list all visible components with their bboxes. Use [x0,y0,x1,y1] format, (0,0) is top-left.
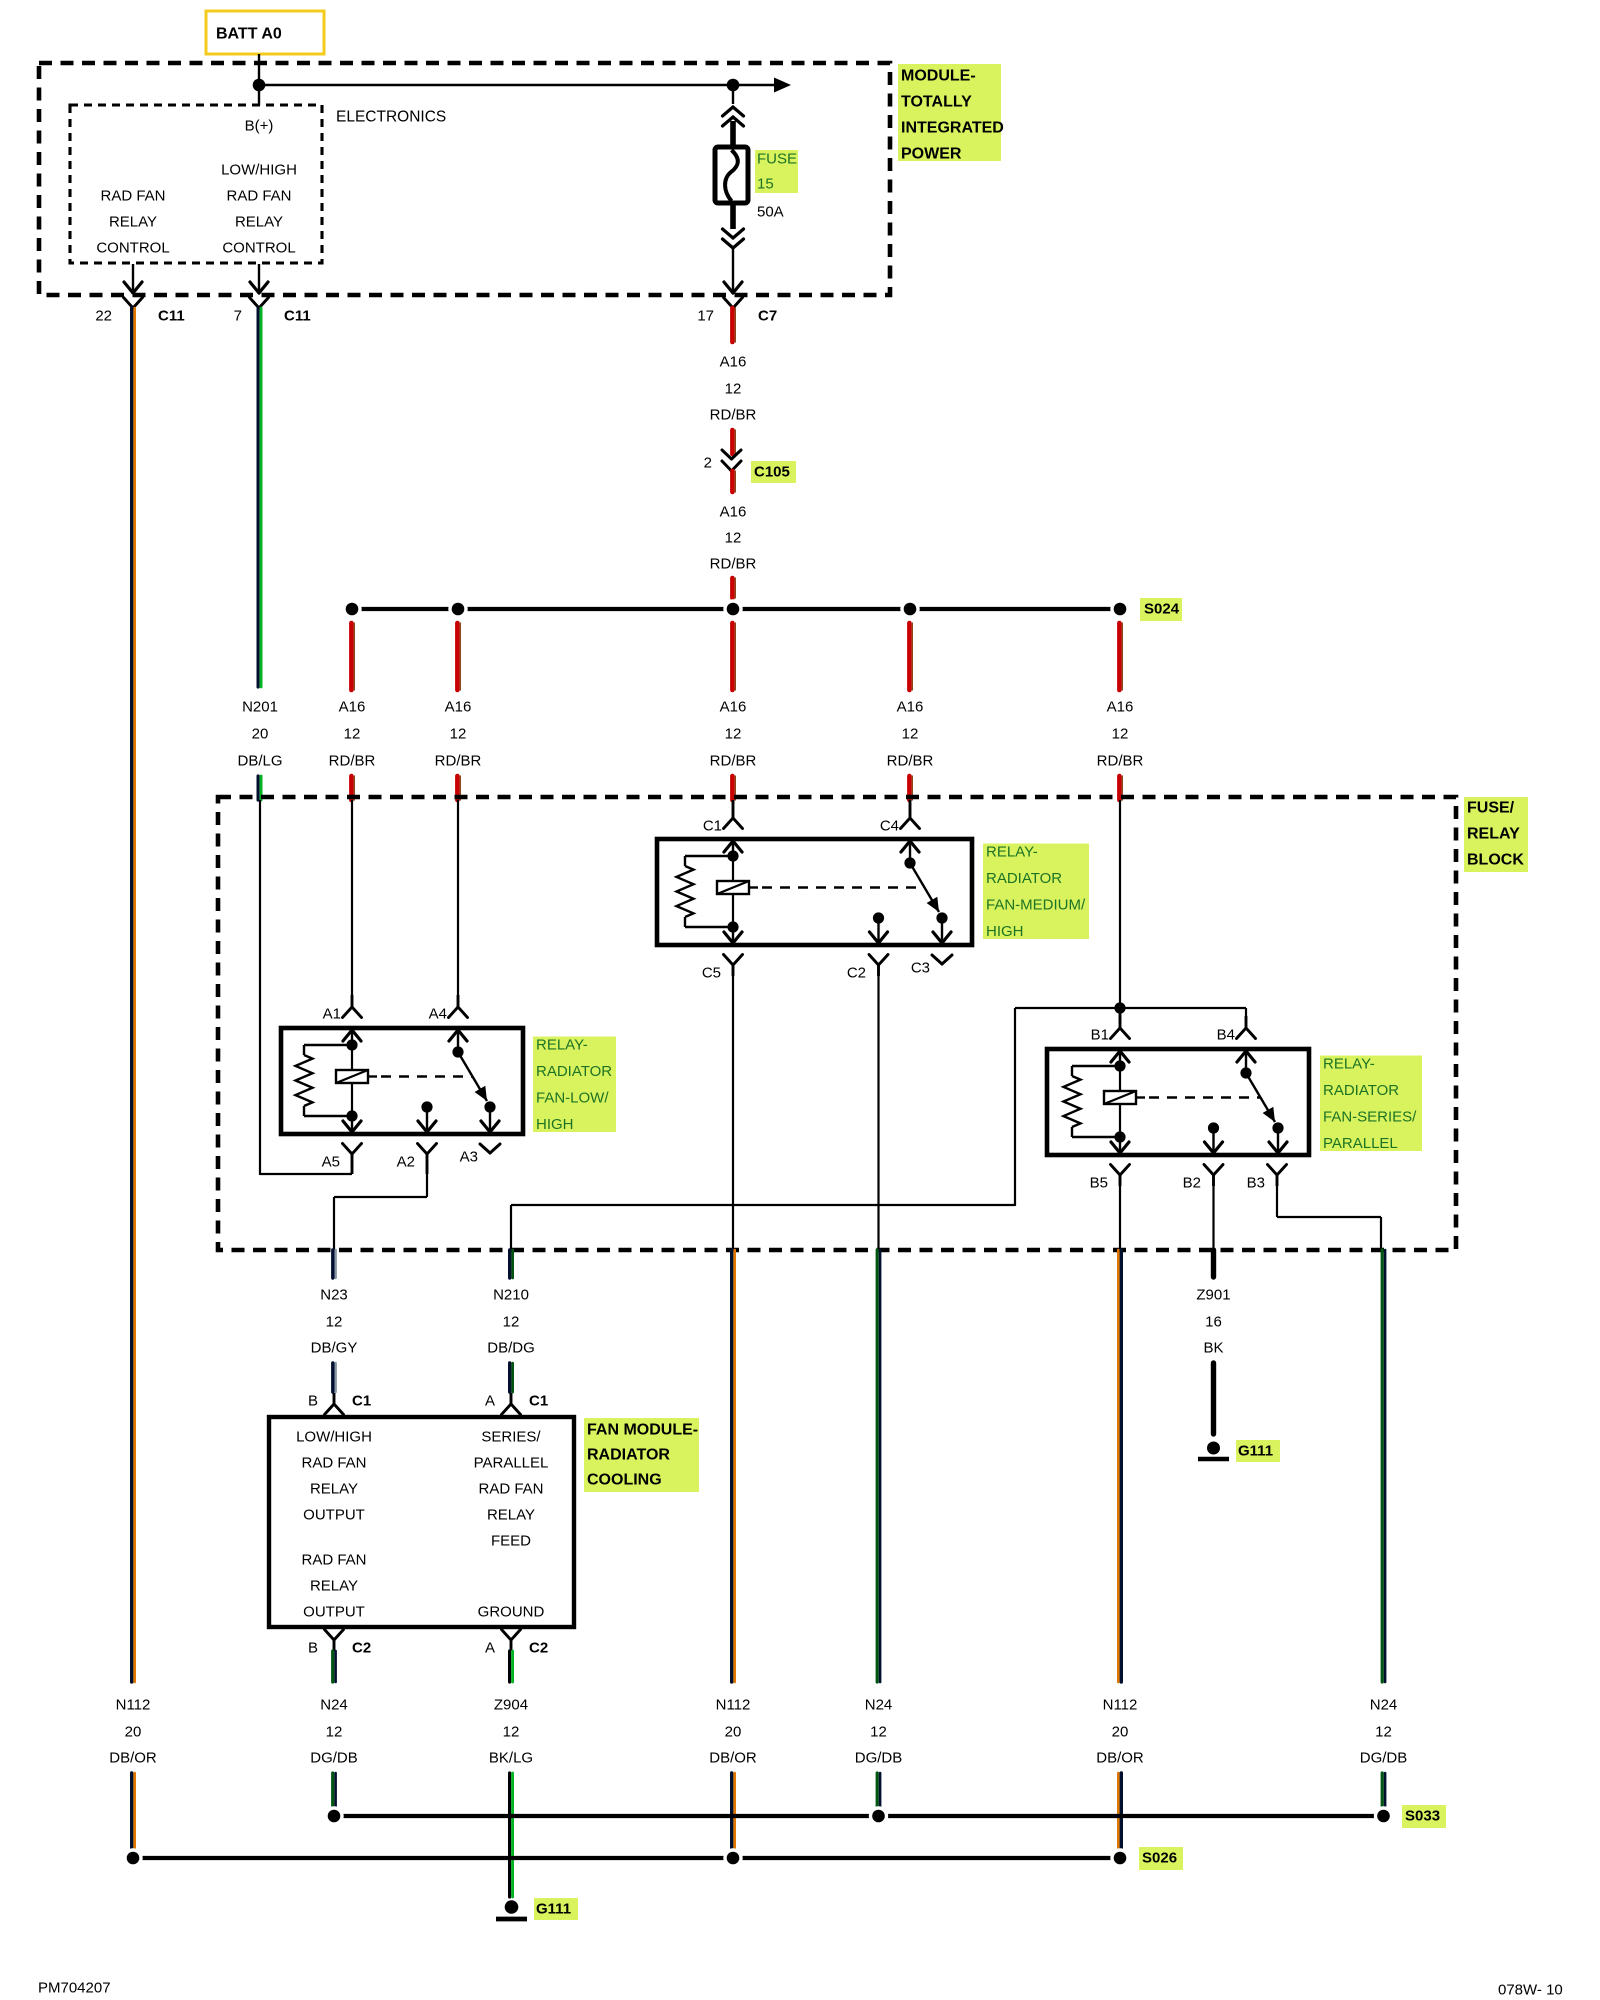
svg-text:INTEGRATED: INTEGRATED [901,120,1004,137]
relay K-SER/PAR (RELAY-RADIATOR FAN-SERIES/PARALLEL) switch [1245,1052,1247,1073]
svg-text:B4: B4 [1217,1027,1235,1044]
svg-text:FAN-LOW/: FAN-LOW/ [536,1090,609,1107]
label FAN MODULE-RADIATOR COOLING [584,1418,699,1492]
connector C1 pin A (fan module) [510,1393,513,1404]
label S033 [1402,1805,1446,1828]
svg-text:CONTROL: CONTROL [96,240,169,257]
wire A16 12 RD/BR drop at x=910 [907,623,912,690]
svg-text:C2: C2 [529,1640,548,1657]
electronics inner dashed box [70,105,322,263]
relay K-MED/HIGH (RELAY-RADIATOR FAN-MEDIUM/HIGH) label [983,844,1089,940]
connector C1 pin B (fan module) [333,1393,336,1404]
label FUSE 15 (highlight) [755,150,798,193]
svg-text:BLOCK: BLOCK [1467,852,1524,869]
svg-text:FAN-MEDIUM/: FAN-MEDIUM/ [986,897,1086,914]
svg-text:RELAY-: RELAY- [986,844,1038,861]
svg-text:FAN MODULE-: FAN MODULE- [587,1422,698,1439]
svg-text:OUTPUT: OUTPUT [303,1604,365,1621]
svg-text:RELAY: RELAY [310,1481,358,1498]
svg-text:RADIATOR: RADIATOR [587,1447,670,1464]
connector C105 pin 2 [722,450,732,459]
wire N23 stub below FRB [331,1250,334,1278]
svg-text:B5: B5 [1090,1175,1108,1192]
svg-text:C2: C2 [352,1640,371,1657]
wire A16 12 RD/BR below C7 [730,308,735,342]
junction S026 right end [1110,1848,1129,1867]
wire A16 segment below C105 [730,471,735,492]
svg-text:S024: S024 [1144,601,1180,618]
svg-text:ELECTRONICS: ELECTRONICS [336,109,446,126]
svg-text:RELAY: RELAY [487,1507,535,1524]
svg-text:B: B [308,1640,318,1657]
svg-text:RAD FAN: RAD FAN [478,1481,543,1498]
svg-text:CONTROL: CONTROL [222,240,295,257]
svg-text:RAD FAN: RAD FAN [100,188,165,205]
wire N201 stub into fuse/relay block [257,776,260,800]
svg-text:C4: C4 [880,818,899,835]
relay K-LOW/HIGH (RELAY-RADIATOR FAN-LOW/HIGH) coil-to-switch dashed link [368,1075,377,1077]
relay K-LOW/HIGH (RELAY-RADIATOR FAN-LOW/HIGH) output stub [421,1101,432,1112]
svg-text:12: 12 [326,1724,343,1741]
svg-text:A16: A16 [339,699,366,716]
svg-text:N112: N112 [116,1697,151,1714]
junction S024 at x=458 [448,599,467,618]
svg-text:DB/OR: DB/OR [109,1750,157,1767]
svg-text:N24: N24 [1370,1697,1398,1714]
pin B5 connector [1111,1165,1121,1176]
svg-text:RAD FAN: RAD FAN [226,188,291,205]
svg-text:C1: C1 [703,818,722,835]
svg-text:PARALLEL: PARALLEL [474,1455,549,1472]
inline connector above fuse [732,85,734,104]
svg-text:N210: N210 [493,1287,529,1304]
svg-text:A16: A16 [897,699,924,716]
svg-text:DB/DG: DB/DG [487,1340,535,1357]
wire A16 12 RD/BR drop at x=352 [349,623,354,690]
wire N201 20 DB/LG from pin 7 [257,308,260,687]
svg-text:22: 22 [95,308,112,325]
wire N24 mid into S033 [876,1773,879,1816]
wire N210 to fan module [508,1363,511,1392]
relay K-MED/HIGH (RELAY-RADIATOR FAN-MEDIUM/HIGH) resistor [685,855,733,857]
svg-text:20: 20 [125,1724,142,1741]
svg-text:N112: N112 [716,1697,751,1714]
relay K-SER/PAR (RELAY-RADIATOR FAN-SERIES/PARALLEL) resistor [1072,1065,1120,1067]
svg-text:A16: A16 [720,354,747,371]
connector C2 pin A (fan module bottom) [502,1630,512,1641]
svg-text:50A: 50A [757,204,784,221]
splice S026 bus [133,1856,1120,1860]
relay K-LOW/HIGH (RELAY-RADIATOR FAN-LOW/HIGH) label [533,1037,616,1133]
junction S024 at x=1120 [1110,599,1129,618]
pin A3 connector [480,1144,490,1153]
svg-text:B3: B3 [1247,1175,1265,1192]
pin B3 connector [1268,1165,1278,1176]
svg-text:FEED: FEED [491,1533,531,1550]
relay K-LOW/HIGH (RELAY-RADIATOR FAN-LOW/HIGH) resistor [304,1044,352,1046]
svg-text:A1: A1 [323,1006,341,1023]
junction S033 right end [1374,1806,1393,1825]
svg-text:LOW/HIGH: LOW/HIGH [221,162,297,179]
wire A16 stub into fuse/relay block x=733 [730,776,735,800]
svg-text:20: 20 [1112,1724,1129,1741]
wire TIPM pin 7 output arrow [258,264,260,292]
relay RADIATOR FAN-LOW/HIGH pins A1 A4 (connector forks) [351,995,354,1007]
svg-text:G111: G111 [1238,1443,1273,1460]
svg-text:12: 12 [326,1314,343,1331]
relay K-SER/PAR (RELAY-RADIATOR FAN-SERIES/PARALLEL) coil branch [1119,1052,1121,1066]
label S024 [1140,598,1182,621]
svg-text:RELAY: RELAY [1467,826,1520,843]
relay K-SER/PAR (RELAY-RADIATOR FAN-SERIES/PARALLEL) coil-to-switch dashed link [1136,1096,1145,1098]
wire battery feed from BATT A0 [258,54,260,105]
relay K-MED/HIGH (RELAY-RADIATOR FAN-MEDIUM/HIGH) switch [909,842,911,863]
svg-text:DB/GY: DB/GY [311,1340,358,1357]
svg-text:C3: C3 [911,960,930,977]
wire A16 stub into fuse/relay block x=910 [907,776,912,800]
wire A16 stub into fuse/relay block x=458 [455,776,460,800]
wire N112 mid into S026 [730,1773,733,1858]
junction S024 at x=733 [723,599,742,618]
fan module box (FAN MODULE-RADIATOR COOLING) [269,1417,574,1627]
svg-text:C2: C2 [847,965,866,982]
wire A16 stub into fuse/relay block x=1120 [1117,776,1122,800]
svg-text:RADIATOR: RADIATOR [986,870,1062,887]
svg-text:17: 17 [697,308,714,325]
svg-text:RD/BR: RD/BR [329,753,376,770]
module TIPM dashed box (MODULE-TOTALLY INTEGRATED POWER) [39,63,890,295]
splice S033 bus [334,1814,1384,1818]
svg-text:C1: C1 [529,1393,548,1410]
wire N24 far right drop below FRB [1381,1250,1384,1682]
svg-text:RELAY-: RELAY- [1323,1056,1375,1073]
wire C2 down through FRB [877,976,879,1252]
svg-text:7: 7 [234,308,242,325]
pin A5 connector [343,1144,353,1155]
wire N24 into S033 (left) [331,1773,334,1816]
relay K-MED/HIGH (RELAY-RADIATOR FAN-MEDIUM/HIGH) box [657,839,972,945]
connector C11 pin 7 [250,298,260,309]
wire TIPM internal feed bus [259,84,779,87]
svg-text:RD/BR: RD/BR [710,407,757,424]
svg-text:C1: C1 [352,1393,371,1410]
junction S033 left end [324,1806,343,1825]
pin A2 connector [418,1144,428,1155]
svg-text:HIGH: HIGH [986,923,1024,940]
pin C5 connector [724,955,734,966]
junction S024 at x=352 [342,599,361,618]
svg-text:16: 16 [1205,1314,1222,1331]
relay K-LOW/HIGH (RELAY-RADIATOR FAN-LOW/HIGH) coil [336,1070,368,1083]
svg-text:A3: A3 [460,1149,478,1166]
svg-text:A5: A5 [322,1154,340,1171]
wire N201 inside FRB down to A5 row [259,800,261,1175]
wire Z904 from fan module pin A [508,1651,511,1682]
relay K-SER/PAR (RELAY-RADIATOR FAN-SERIES/PARALLEL) output stub [1208,1122,1219,1133]
wire N24 far right into S033 [1381,1773,1384,1816]
svg-text:FAN-SERIES/: FAN-SERIES/ [1323,1109,1417,1126]
relay K-LOW/HIGH (RELAY-RADIATOR FAN-LOW/HIGH) switch [457,1031,459,1052]
svg-text:HIGH: HIGH [536,1116,574,1133]
wire Z904 to ground G111 [508,1773,511,1897]
svg-text:12: 12 [902,726,919,743]
svg-text:B2: B2 [1183,1175,1201,1192]
svg-text:C11: C11 [158,308,185,325]
junction S024 at x=910 [900,599,919,618]
svg-text:S026: S026 [1142,1850,1177,1867]
junction S033 mid [869,1806,888,1825]
svg-text:RELAY: RELAY [310,1578,358,1595]
fuse F15 50A [715,147,748,203]
svg-text:A: A [485,1640,495,1657]
svg-text:B: B [308,1393,318,1410]
svg-text:B1: B1 [1091,1027,1109,1044]
wire A16 12 RD/BR drop at x=1120 [1117,623,1122,690]
svg-text:N23: N23 [320,1287,348,1304]
wire B4 branch down [1245,1008,1247,1016]
wire C5 down through FRB [732,976,734,1252]
wire A16 12 RD/BR drop at x=733 [730,623,735,690]
wire feed to N210 (left drop) [1014,1008,1016,1206]
svg-text:S033: S033 [1405,1808,1440,1825]
svg-text:RD/BR: RD/BR [710,753,757,770]
svg-text:POWER: POWER [901,146,962,163]
svg-text:12: 12 [503,1314,520,1331]
svg-text:COOLING: COOLING [587,1472,662,1489]
junction S026 mid [723,1848,742,1867]
relay RADIATOR FAN-MEDIUM/HIGH pins C1 C4 (connector forks) [732,800,735,818]
svg-text:A16: A16 [1107,699,1134,716]
svg-text:BK: BK [1203,1340,1223,1357]
relay RADIATOR FAN-SERIES/PARALLEL pins B1 B4 (connector forks) [1119,1008,1122,1028]
splice S024 bus [352,607,1120,611]
relay K-MED/HIGH (RELAY-RADIATOR FAN-MEDIUM/HIGH) output stub [873,912,884,923]
svg-text:12: 12 [503,1724,520,1741]
fuse/relay block dashed box [218,797,1456,1250]
wire N24 mid drop below FRB [876,1250,879,1682]
svg-text:RAD FAN: RAD FAN [301,1455,366,1472]
relay K-LOW/HIGH (RELAY-RADIATOR FAN-LOW/HIGH) coil branch [351,1031,353,1045]
wire A2 jog to N23 drop [426,1174,428,1197]
wire A16 feed to relay B column [1119,800,1121,1008]
wire N112 far left into S026 [130,1773,133,1858]
svg-text:RELAY-: RELAY- [536,1037,588,1054]
svg-text:A16: A16 [720,699,747,716]
wire A16 feed to relay pin A4 [457,800,459,995]
wire A16 stub into fuse/relay block x=352 [349,776,354,800]
svg-text:PARALLEL: PARALLEL [1323,1135,1398,1152]
relay K-SER/PAR (RELAY-RADIATOR FAN-SERIES/PARALLEL) box [1047,1049,1309,1155]
svg-text:BK/LG: BK/LG [489,1750,533,1767]
relay K-MED/HIGH (RELAY-RADIATOR FAN-MEDIUM/HIGH) coil branch [732,842,734,856]
node BATT A0 battery feed box [206,11,324,54]
svg-text:DG/DB: DG/DB [855,1750,903,1767]
pin C3 connector [932,955,942,964]
relay K-MED/HIGH (RELAY-RADIATOR FAN-MEDIUM/HIGH) coil-to-switch dashed link [749,886,758,888]
wire N112 right drop below FRB [1117,1250,1120,1682]
svg-text:DB/LG: DB/LG [237,753,282,770]
svg-text:RD/BR: RD/BR [435,753,482,770]
svg-text:N201: N201 [242,699,278,716]
svg-text:12: 12 [450,726,467,743]
svg-text:12: 12 [725,726,742,743]
svg-text:N24: N24 [320,1697,348,1714]
svg-text:A: A [485,1393,495,1410]
svg-text:MODULE-: MODULE- [901,68,976,85]
svg-text:12: 12 [344,726,361,743]
svg-text:RD/BR: RD/BR [887,753,934,770]
svg-text:PM704207: PM704207 [38,1980,111,1997]
svg-text:FUSE/: FUSE/ [1467,800,1515,817]
wire A16 feed to relay pin A1 [351,800,353,995]
svg-text:078W- 10: 078W- 10 [1498,1982,1563,1999]
svg-text:A4: A4 [429,1006,447,1023]
svg-text:A16: A16 [720,504,747,521]
relay K-LOW/HIGH (RELAY-RADIATOR FAN-LOW/HIGH) box [281,1028,523,1134]
connector C7 pin 17 [724,298,734,309]
connector C2 pin B (fan module bottom) [325,1630,335,1641]
wire A16 into splice S024 [730,578,735,598]
svg-text:RAD FAN: RAD FAN [301,1552,366,1569]
svg-text:DB/OR: DB/OR [709,1750,757,1767]
ground G111 (bottom) [505,1900,519,1914]
pin B2 connector [1204,1165,1214,1176]
svg-text:A2: A2 [397,1154,415,1171]
svg-text:G111: G111 [536,1901,571,1918]
svg-text:12: 12 [1375,1724,1392,1741]
svg-text:C105: C105 [754,464,790,481]
svg-text:RELAY: RELAY [235,214,283,231]
svg-text:C7: C7 [758,308,777,325]
ground G111 (right) [1207,1442,1220,1455]
svg-text:RADIATOR: RADIATOR [536,1063,612,1080]
svg-text:B(+): B(+) [245,118,274,135]
svg-text:FUSE: FUSE [757,151,797,168]
wire N24 from fan module pin B [331,1651,334,1682]
svg-text:N112: N112 [1103,1697,1138,1714]
svg-text:Z904: Z904 [494,1697,528,1714]
svg-text:12: 12 [1112,726,1129,743]
svg-text:12: 12 [725,530,742,547]
junction S026 left end [123,1848,142,1867]
relay K-SER/PAR (RELAY-RADIATOR FAN-SERIES/PARALLEL) label [1320,1056,1422,1152]
svg-text:RADIATOR: RADIATOR [1323,1082,1399,1099]
wire N23 to fan module [331,1363,334,1392]
svg-text:DG/DB: DG/DB [1360,1750,1408,1767]
svg-text:Z901: Z901 [1196,1287,1230,1304]
svg-text:RD/BR: RD/BR [1097,753,1144,770]
wire fuse output (thick) [730,201,736,229]
svg-text:OUTPUT: OUTPUT [303,1507,365,1524]
wire N112 20 DB/OR from pin 22 (long left drop) [130,308,133,1682]
svg-text:2: 2 [704,455,712,472]
svg-text:12: 12 [725,381,742,398]
junction fuse tap [727,79,740,92]
wire B3 jog to right drop [1276,1186,1278,1217]
svg-text:BATT A0: BATT A0 [216,26,282,43]
relay K-SER/PAR (RELAY-RADIATOR FAN-SERIES/PARALLEL) coil [1104,1091,1136,1104]
svg-text:GROUND: GROUND [478,1604,545,1621]
svg-text:A16: A16 [445,699,472,716]
svg-text:N24: N24 [865,1697,893,1714]
label MODULE-TOTALLY INTEGRATED POWER [898,64,1001,161]
wire Z901 to ground [1211,1363,1216,1434]
svg-text:C5: C5 [702,965,721,982]
relay K-MED/HIGH (RELAY-RADIATOR FAN-MEDIUM/HIGH) coil [717,881,749,894]
label S026 [1139,1847,1183,1870]
wire B5 down through FRB [1119,1186,1121,1252]
svg-text:20: 20 [252,726,269,743]
wire N112 right into S026 [1117,1773,1120,1858]
wire fuse feed (thick) [730,121,736,149]
svg-text:TOTALLY: TOTALLY [901,94,972,111]
junction battery feed / horizontal bus [253,79,266,92]
svg-text:15: 15 [757,176,774,193]
wire fuse to TIPM border [732,246,734,292]
label FUSE/RELAY BLOCK [1464,797,1528,872]
svg-text:20: 20 [725,1724,742,1741]
svg-text:RELAY: RELAY [109,214,157,231]
wire B2 down through FRB [1212,1186,1214,1252]
svg-text:DG/DB: DG/DB [310,1750,358,1767]
svg-text:LOW/HIGH: LOW/HIGH [296,1429,372,1446]
wire TIPM pin 22 output arrow [132,264,134,292]
wire Z901 stub below FRB [1211,1250,1216,1277]
wire N112 mid drop below FRB [730,1250,733,1682]
connector C11 pin 22 [124,298,134,309]
pin C2 connector [869,955,879,966]
svg-text:RD/BR: RD/BR [710,556,757,573]
svg-text:12: 12 [870,1724,887,1741]
wire A16 segment above C105 [730,430,735,454]
wire N210 stub below FRB [508,1250,511,1278]
svg-text:C11: C11 [284,308,311,325]
junction B1/B4 feed [1015,1007,1246,1009]
svg-text:DB/OR: DB/OR [1096,1750,1144,1767]
wire A16 12 RD/BR drop at x=458 [455,623,460,690]
inline connector below fuse [723,229,734,238]
svg-text:SERIES/: SERIES/ [481,1429,541,1446]
